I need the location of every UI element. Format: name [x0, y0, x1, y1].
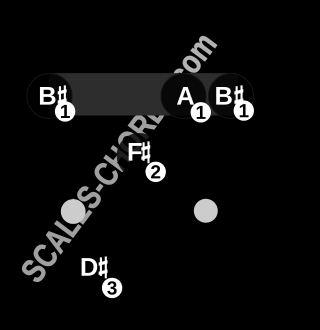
note text D: [82, 258, 98, 276]
note bubble D# string 4 fret 4: [73, 249, 118, 294]
finger badge 1 (right B#): [234, 100, 254, 120]
finger badge 2 (F#): [146, 162, 166, 182]
watermark text SCALES-CHORDS: [22, 85, 176, 282]
barre band at fret 1: [49, 73, 238, 115]
watermark text .com: [174, 36, 217, 93]
note bubble B# string 5 fret 1: [27, 74, 72, 119]
note bubble F# string 3 fret 2: [117, 133, 162, 178]
note text B (left B#): [40, 87, 56, 105]
sharp sign of right B#: [234, 85, 243, 107]
fret marker dot right (fret 3): [194, 199, 218, 223]
note bubble B# string 1 fret 1: [209, 74, 254, 119]
note text F: [129, 143, 142, 161]
note text B (right B#): [216, 87, 232, 105]
note bubble A string 2 fret 1: [161, 74, 206, 119]
sharp sign of F#: [141, 141, 150, 163]
finger badge 1 (A): [191, 102, 211, 122]
note text A: [177, 87, 194, 105]
finger badge 1 (left B#): [55, 101, 75, 121]
sharp sign of left B#: [58, 85, 67, 107]
fret marker dot left (fret 3): [61, 199, 86, 224]
sharp sign of D#: [99, 257, 108, 279]
finger badge 3 (D#): [102, 278, 122, 298]
